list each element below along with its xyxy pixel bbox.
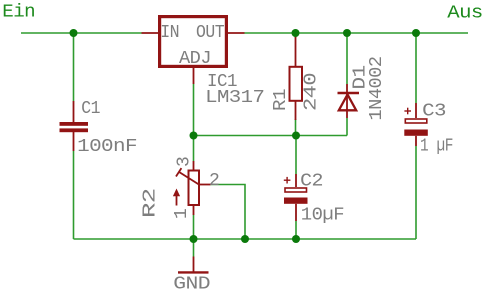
pin label ADJ — [179, 49, 211, 69]
node Ein — [2, 3, 35, 23]
label R2 — [141, 189, 161, 219]
wire R2 pin1 to bottom rail — [193, 215, 195, 239]
label 240 — [302, 73, 322, 111]
potentiometer R2 wiper crossbar — [176, 168, 181, 176]
svg-text:Ein: Ein — [2, 3, 35, 23]
wire right branch C3 bottom — [415, 146, 417, 239]
svg-text:3: 3 — [175, 157, 195, 167]
wire ADJ net horizontal — [194, 135, 348, 137]
label R1 — [271, 89, 291, 111]
label C3 — [422, 102, 446, 122]
potentiometer R2 pin3 stub — [193, 161, 195, 171]
junction ADJ net C2 — [292, 132, 300, 140]
potentiometer R2 body — [189, 171, 200, 206]
diode D1 center pin — [346, 84, 348, 118]
junction ADJ net R2 — [190, 132, 198, 140]
svg-text:C2: C2 — [300, 172, 323, 192]
svg-text:LM317: LM317 — [205, 88, 264, 108]
diode D1 cathode bar — [338, 92, 360, 94]
potentiometer R2 pin1 stub — [193, 205, 195, 215]
capacitor C2 top plate — [285, 188, 307, 192]
svg-text:R1: R1 — [271, 89, 291, 111]
potentiometer R2 pin2 stub — [199, 184, 211, 186]
capacitor C1 plates — [60, 122, 89, 132]
wire right branch C3 top — [415, 33, 417, 103]
svg-text:1N4002: 1N4002 — [367, 57, 387, 121]
pin ADJ stub — [193, 68, 195, 84]
node Aus — [447, 3, 482, 23]
junction top rail D1 — [343, 29, 351, 37]
potentiometer R2 wiper diagonal — [179, 172, 200, 185]
resistor R1 top pin — [295, 36, 297, 67]
pin number 2 — [209, 171, 219, 191]
pin label OUT — [196, 23, 225, 43]
svg-text:IN: IN — [160, 23, 179, 43]
capacitor C3 polarity plus — [404, 108, 411, 115]
capacitor C1 top pin — [73, 101, 75, 122]
wire R2 pin3 to ADJ net — [193, 136, 195, 162]
wire D1 cathode to top rail — [346, 33, 348, 84]
svg-text:100nF: 100nF — [77, 137, 137, 157]
junction top rail C3 — [412, 29, 420, 37]
svg-text:240: 240 — [302, 73, 322, 111]
capacitor C2 top pin — [295, 174, 297, 187]
pin number 1 — [172, 209, 192, 219]
svg-text:1 µF: 1 µF — [420, 137, 453, 157]
wire GND stub — [193, 239, 195, 257]
wire R2 pin2 branch — [211, 185, 246, 240]
wire top rail output segment — [245, 32, 469, 34]
potentiometer R2 adjust arrow — [173, 189, 180, 206]
svg-text:C1: C1 — [81, 99, 100, 119]
junction top rail C1 — [70, 29, 78, 37]
svg-text:C3: C3 — [422, 102, 446, 122]
pin label IN — [160, 23, 179, 43]
wire left branch to C1 — [73, 33, 75, 101]
wire left branch C1 to bottom rail — [73, 151, 75, 239]
capacitor C3 bottom pin — [415, 136, 417, 146]
label 1N4002 — [367, 57, 387, 121]
pin OUT stub — [228, 32, 245, 34]
label 100nF — [77, 137, 137, 157]
ground — [178, 257, 209, 273]
wire top rail input segment — [21, 32, 142, 34]
svg-text:ADJ: ADJ — [179, 49, 211, 69]
wire bottom rail — [74, 238, 417, 240]
capacitor C3 bottom plate — [404, 130, 428, 136]
svg-text:R2: R2 — [141, 189, 161, 219]
capacitor C3 top pin — [415, 103, 417, 118]
wire C2 top — [295, 136, 297, 175]
wire ADJ net vertical — [193, 84, 195, 136]
label 10uF — [301, 205, 344, 225]
capacitor C2 bottom pin — [295, 204, 297, 221]
wire R1 bottom to ADJ net — [295, 119, 297, 136]
label IC1 — [207, 72, 237, 92]
capacitor C3 top plate — [405, 119, 427, 123]
junction bottom rail R2 pin2 — [241, 235, 249, 243]
label D1 — [351, 66, 371, 90]
resistor R1 bottom pin — [295, 101, 297, 120]
label C1 — [81, 99, 100, 119]
resistor R1 body — [290, 67, 303, 101]
wire C2 bottom — [295, 221, 297, 239]
junction bottom rail GND — [190, 235, 198, 243]
op-amp U1 IC1 LM317 box — [160, 17, 227, 67]
svg-text:Aus: Aus — [447, 3, 482, 23]
label LM317 — [205, 88, 264, 108]
capacitor C2 bottom plate — [284, 198, 308, 204]
svg-text:GND: GND — [173, 275, 210, 295]
pin number 3 — [175, 157, 195, 167]
label 1uF — [420, 137, 453, 157]
label C2 — [300, 172, 323, 192]
junction top rail R1 — [292, 29, 300, 37]
capacitor C2 polarity plus — [284, 177, 291, 184]
junction bottom rail C2 — [292, 235, 300, 243]
svg-text:1: 1 — [172, 209, 192, 219]
wire R1 top — [295, 33, 297, 38]
svg-text:10µF: 10µF — [301, 205, 344, 225]
diode D1 triangle — [339, 95, 356, 111]
wire D1 anode to ADJ net — [346, 118, 348, 136]
svg-text:OUT: OUT — [196, 23, 225, 43]
capacitor C1 bottom pin — [73, 132, 75, 151]
svg-text:2: 2 — [209, 171, 219, 191]
pin IN stub — [142, 32, 159, 34]
label GND — [173, 275, 210, 295]
